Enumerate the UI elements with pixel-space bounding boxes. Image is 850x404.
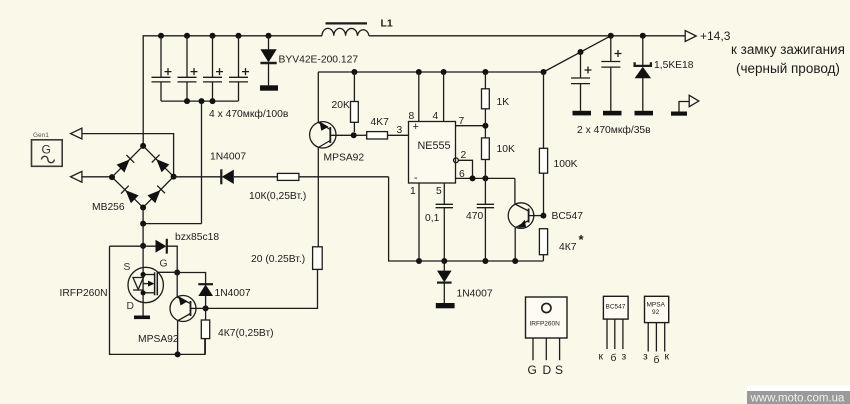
wire vcc bus y72: [318, 71, 543, 73]
svg-text:D: D: [127, 301, 134, 312]
svg-text:92: 92: [652, 309, 660, 316]
node vcc bus pin4: [441, 69, 447, 75]
node bridge bottom: [140, 205, 146, 211]
resistor 10K: [482, 126, 490, 179]
wire pin7: [456, 125, 486, 127]
svg-text:4 x 470мкф/100в: 4 x 470мкф/100в: [209, 108, 289, 120]
wire AC2: [82, 176, 112, 178]
wire bottom bus: [389, 177, 544, 261]
svg-text:1N4007: 1N4007: [457, 289, 493, 300]
node vcc bus 20K: [351, 69, 357, 75]
IC U1 NE555: [409, 121, 456, 184]
capacitor C1 470uF: [152, 36, 172, 101]
capacitor C3 470uF: [203, 36, 223, 101]
bridge diode bottom-right: [147, 186, 165, 204]
node pin6 junction b: [482, 175, 488, 181]
ground bar output: [671, 112, 687, 116]
wire base junction right to 20ohm: [206, 269, 318, 308]
capacitor C5 470uF/35v: [571, 52, 592, 111]
svg-text:NE555: NE555: [418, 140, 451, 152]
resistor 4K7-star: [539, 229, 547, 261]
node vcc bus pin8: [416, 69, 422, 75]
svg-text:4К7: 4К7: [559, 242, 577, 253]
svg-text:S: S: [555, 363, 563, 377]
svg-text:470: 470: [466, 211, 483, 222]
package MPSA92: [645, 296, 669, 351]
watermark bar: [747, 391, 850, 404]
mosfet M1 IRFP260N: [128, 267, 177, 302]
svg-text:G: G: [160, 259, 168, 270]
wire base junction to Q2: [191, 307, 206, 309]
transistor Q2 MPSA92: [170, 273, 196, 355]
node bus pin1: [416, 258, 422, 264]
node bridge top: [140, 143, 146, 149]
diode TVS 1,5KE18: [635, 36, 651, 111]
svg-text:L1: L1: [381, 18, 393, 30]
capacitor C2 470uF: [178, 36, 198, 101]
resistor 4K7 pin3: [354, 132, 409, 139]
node rail junction tvs: [640, 33, 646, 39]
svg-text:1: 1: [410, 186, 416, 197]
svg-text:IRFP260N: IRFP260N: [530, 321, 561, 328]
resistor 20K: [351, 72, 359, 132]
wire pin4: [443, 72, 445, 122]
bridge diode top-right: [152, 155, 170, 173]
svg-text:4: 4: [433, 111, 439, 122]
svg-text:BC547: BC547: [552, 211, 584, 222]
svg-text:+: +: [413, 121, 419, 133]
resistor 4K7 0,25W: [201, 308, 209, 354]
svg-text:MPSA92: MPSA92: [138, 334, 179, 345]
svg-text:1K: 1K: [497, 97, 510, 108]
svg-text:-: -: [414, 172, 418, 184]
node pin7 junction: [482, 123, 488, 129]
svg-text:8: 8: [409, 111, 415, 122]
node return junction: [140, 221, 146, 227]
svg-text:bzx85c18: bzx85c18: [175, 232, 219, 243]
svg-text:MPSA92: MPSA92: [324, 153, 365, 164]
capacitor C4 470uF: [229, 36, 249, 101]
wire ground to arrow: [679, 102, 689, 112]
node Q2 base junction: [203, 305, 209, 311]
svg-text:D: D: [543, 363, 552, 377]
capacitor 0,1: [436, 183, 453, 261]
svg-text:Gen1: Gen1: [33, 132, 49, 139]
node vcc bus 1K: [482, 69, 488, 75]
diode D1 BYV42E: [260, 36, 278, 91]
pin 2 circle and wire: [454, 158, 473, 178]
wire gate junction to 1N4007: [177, 273, 205, 285]
node bus emitter: [512, 258, 518, 264]
node top rail junction c3: [210, 33, 216, 39]
wire caps return horizontal: [143, 223, 201, 225]
zener bzx85c18: [110, 239, 178, 273]
package BC547: [603, 296, 628, 349]
package IRFP260N: [526, 297, 568, 360]
node top rail junction c2: [184, 33, 190, 39]
wire caps return down: [201, 101, 203, 224]
ground bar C6: [603, 111, 622, 116]
node gate junction: [174, 270, 180, 276]
ground bar C5: [573, 111, 592, 116]
connector arrow ground: [689, 95, 699, 106]
wire AC1: [82, 134, 174, 177]
connector arrow AC2: [71, 171, 82, 182]
svg-text:2 x 470мкф/35в: 2 x 470мкф/35в: [577, 124, 651, 136]
svg-text:100K: 100K: [554, 159, 578, 170]
capacitor 470: [477, 178, 494, 261]
svg-text:з: з: [622, 352, 627, 363]
node source junction: [140, 243, 146, 249]
svg-text:BYV42E-200.127: BYV42E-200.127: [279, 55, 359, 66]
svg-text:10К(0,25Вт.): 10К(0,25Вт.): [249, 191, 306, 202]
node pin6 junction a: [470, 175, 476, 181]
resistor 1K: [482, 72, 490, 126]
node BC547 base junction: [540, 213, 546, 219]
node top rail junction c4: [236, 33, 242, 39]
node vcc bus 100K: [541, 69, 547, 75]
svg-text:+14,3: +14,3: [700, 29, 731, 43]
svg-text:1N4007: 1N4007: [210, 152, 246, 163]
inductor L1: [322, 23, 369, 35]
wire pin1 down: [418, 183, 420, 261]
svg-text:1,5KE18: 1,5KE18: [654, 60, 694, 71]
connector arrow +14.3: [685, 31, 696, 42]
svg-text:0,1: 0,1: [425, 213, 440, 224]
svg-text:BC547: BC547: [606, 304, 626, 311]
node rail junction c6: [608, 33, 614, 39]
svg-text:к: к: [599, 352, 604, 363]
node top rail junction BYV: [266, 33, 272, 39]
node top rail junction c1: [158, 33, 164, 39]
node cap bus junction down-wire: [199, 98, 205, 104]
capacitor C6 470uF/35v: [601, 36, 621, 111]
svg-text:4К7(0,25Вт): 4К7(0,25Вт): [218, 328, 274, 339]
svg-text:з: з: [643, 352, 648, 363]
svg-text:4K7: 4K7: [371, 117, 390, 128]
svg-text:10K: 10K: [497, 144, 515, 155]
diode 1N4007 bottom: [436, 261, 455, 308]
transistor Q1 MPSA92: [310, 72, 354, 247]
svg-text:к: к: [665, 352, 670, 363]
node bus 470: [482, 258, 488, 264]
svg-text:20 (0.25Вт.): 20 (0.25Вт.): [251, 254, 305, 265]
svg-text:20K: 20K: [332, 100, 350, 111]
svg-text:S: S: [124, 262, 131, 273]
svg-text:www.moto.com.ua: www.moto.com.ua: [750, 393, 846, 404]
wire bridge bottom down: [142, 208, 144, 268]
svg-text:MB256: MB256: [92, 202, 125, 213]
svg-text:MPSA: MPSA: [647, 302, 666, 309]
svg-text:(черный провод): (черный провод): [736, 61, 840, 76]
diode 1N4007 ac: [174, 169, 278, 184]
node mosfet top tap: [141, 272, 146, 277]
diode 1N4007 gate: [198, 284, 213, 308]
node mosfet bottom tap: [141, 290, 146, 295]
node diagonal junction c5: [578, 49, 584, 55]
node bridge left: [109, 174, 115, 180]
resistor 100K: [539, 72, 547, 216]
transistor Q3 BC547: [508, 178, 543, 261]
resistor 10K 0,25W: [277, 173, 388, 180]
svg-text:3: 3: [397, 125, 403, 136]
bridge MB256 diamond: [112, 146, 174, 208]
svg-text:1N4007: 1N4007: [215, 288, 251, 299]
wire capacitor bottom bus: [161, 100, 239, 102]
resistor 20 0,25W: [313, 247, 323, 270]
node Q2 collector junction: [175, 351, 181, 357]
wire pin6: [456, 177, 515, 179]
node bridge right: [171, 174, 177, 180]
node cap bus junction c2: [184, 98, 190, 104]
bridge diode top-left: [117, 155, 135, 173]
connector arrow AC1: [71, 128, 82, 139]
watermark strip: [745, 386, 850, 392]
svg-text:G: G: [42, 143, 51, 157]
node Q1 base junction: [351, 132, 357, 138]
node bus pin5: [441, 258, 447, 264]
node cap bus junction c3: [210, 98, 216, 104]
wire top rail right segment: [369, 35, 685, 37]
svg-text:б: б: [611, 352, 617, 364]
wire enclosure left-bottom: [110, 246, 205, 354]
wire pin8: [418, 72, 420, 122]
wire top rail left segment: [143, 36, 322, 146]
svg-text:G: G: [528, 363, 537, 377]
svg-text:5: 5: [436, 186, 442, 197]
svg-text:2: 2: [461, 150, 467, 161]
svg-text:IRFP260N: IRFP260N: [60, 288, 108, 299]
ground bar TVS: [635, 111, 654, 116]
generator Gen1 box: [32, 132, 63, 166]
bridge diode bottom-left: [121, 186, 139, 204]
drain terminal bar: [134, 303, 150, 320]
svg-text:б: б: [654, 354, 660, 366]
wire diagonal from bus to rail: [544, 36, 611, 72]
svg-text:к замку зажигания: к замку зажигания: [731, 42, 845, 57]
